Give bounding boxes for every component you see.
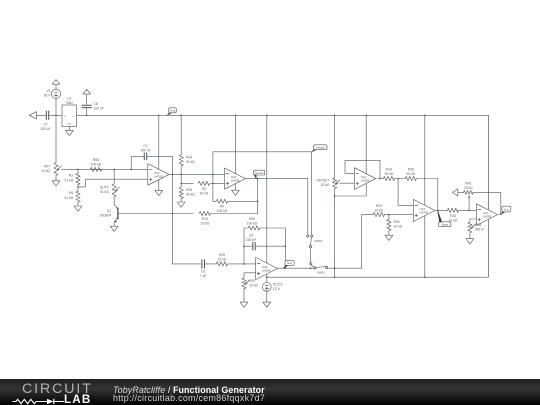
junction wiper-R2	[77, 169, 79, 171]
junction V1-rail	[55, 115, 57, 117]
svg-text:LM358: LM358	[361, 178, 370, 182]
ground below Q1	[110, 226, 118, 231]
wire OA7 plus network	[470, 219, 477, 222]
wire C7 to U1	[49, 114, 62, 116]
svg-text:R03: R03	[186, 188, 192, 192]
junction OA3out-feedback	[437, 210, 439, 212]
wire SW01 common down	[310, 248, 312, 263]
wire OA6 plus network	[244, 273, 256, 278]
svg-text:LM358: LM358	[483, 215, 492, 219]
resistor R33 10k	[447, 208, 458, 222]
wire plus input OA4	[181, 182, 224, 184]
wire R05 to OA3 output (feedback)	[416, 179, 437, 211]
junction rail x235	[235, 115, 237, 117]
potentiometer R20 10k	[242, 278, 259, 289]
transistor Q1 2N3904	[100, 208, 118, 223]
resistor R08 100k	[90, 158, 101, 172]
svg-text:51 kΩ: 51 kΩ	[64, 196, 73, 200]
resistor R29 10k	[373, 204, 384, 217]
junction wiper-C1 branch	[130, 169, 132, 171]
svg-text:LM358: LM358	[231, 179, 240, 183]
flag Sine	[283, 261, 294, 269]
capacitor C1 feedback loop	[131, 144, 172, 175]
svg-text:90 kΩ: 90 kΩ	[186, 192, 195, 196]
resistor R6 51k	[64, 191, 80, 202]
junction rail x425	[424, 115, 426, 117]
svg-text:OFFSET: OFFSET	[316, 178, 329, 182]
OA3 bottom supply pin	[424, 216, 426, 277]
svg-text:10 kΩ: 10 kΩ	[394, 225, 403, 229]
svg-text:Amp: Amp	[504, 208, 510, 212]
feedback R06 C4 network	[243, 217, 286, 268]
junction OA2out-R04	[180, 174, 182, 176]
wire top rail segment from input port to C7	[37, 114, 47, 116]
wire triangle node	[213, 151, 312, 153]
svg-text:V-: V-	[73, 116, 75, 118]
svg-text:10 kΩ: 10 kΩ	[41, 169, 50, 173]
resistor R05 90k	[405, 168, 416, 181]
junction negrail-offset	[334, 276, 336, 278]
svg-text:10 kΩ: 10 kΩ	[374, 208, 383, 212]
wire V1 down through rail to R07	[55, 98, 57, 162]
wire Q1 emitter to ground	[113, 222, 115, 226]
junction C8-rail	[86, 115, 88, 117]
potentiometer OFFSET 10k	[316, 115, 339, 188]
op-amp OA6	[256, 257, 278, 279]
potentiometer R4B 500	[468, 222, 485, 233]
svg-text:R07: R07	[44, 164, 50, 168]
wire C6 to R25	[205, 263, 217, 265]
svg-text:100 kΩ: 100 kΩ	[217, 209, 228, 213]
wire OA4 output square	[245, 178, 307, 180]
svg-text:Square: Square	[255, 171, 264, 175]
svg-text:7662: 7662	[66, 101, 74, 105]
svg-text:V1: V1	[46, 89, 50, 93]
wire R18 to square corner	[211, 213, 258, 215]
svg-text:R30: R30	[394, 220, 400, 224]
svg-text:51 kΩ: 51 kΩ	[100, 190, 109, 194]
wire R08 junction down to DUTY	[113, 169, 115, 183]
wire DUTY to Q1 collector	[114, 197, 118, 210]
svg-text:R18: R18	[202, 217, 208, 221]
wire OFFSET down to negative rail	[334, 189, 336, 278]
op-amp OA3	[413, 199, 435, 221]
ground below R03	[177, 199, 185, 208]
svg-text:330 nF: 330 nF	[40, 127, 50, 131]
wire x213 vertical	[212, 152, 214, 202]
OA7 top supply pin	[487, 115, 489, 209]
resistor R2 51k	[64, 169, 80, 184]
svg-text:100 nF: 100 nF	[94, 107, 104, 111]
svg-text:DUTY: DUTY	[100, 186, 110, 190]
junction base wire x172	[172, 213, 174, 215]
svg-text:20 kΩ: 20 kΩ	[464, 186, 473, 190]
op-amp OA4	[225, 168, 246, 189]
wire R07 wiper to OA2 minus	[61, 168, 147, 170]
wire R29 to OA3 plus	[384, 214, 413, 216]
svg-text:Q1: Q1	[107, 209, 112, 213]
svg-text:SW01: SW01	[314, 239, 323, 243]
svg-text:R0: R0	[220, 205, 224, 209]
flag Signal	[438, 211, 451, 227]
junction square-R0vert	[257, 178, 259, 180]
OA6 bottom supply pin to VCC3	[266, 274, 268, 282]
svg-text:C8: C8	[94, 102, 98, 106]
svg-text:R04: R04	[186, 155, 192, 159]
resistor R0 100k	[213, 199, 258, 213]
footer bar	[0, 379, 540, 405]
op-amp OA7	[476, 204, 497, 226]
wire OA2 output	[170, 173, 225, 175]
svg-text:2N3904: 2N3904	[100, 214, 112, 218]
potentiometer DUTY 51k	[100, 184, 120, 197]
OA1 feedback loop	[345, 160, 380, 178]
svg-text:200 nF: 200 nF	[246, 238, 256, 242]
junction rail x181	[180, 115, 182, 117]
resistor R03 90k	[179, 187, 195, 198]
svg-text:R05: R05	[408, 168, 414, 172]
wire square down to SW01	[307, 179, 309, 235]
svg-text:LM358: LM358	[154, 174, 163, 178]
junction OA1out-feedback	[379, 178, 381, 180]
wire C6 input	[172, 263, 200, 265]
svg-text:R4B: R4B	[475, 223, 482, 227]
wire OA2 output down to base wire and C6	[171, 174, 173, 264]
junction rail x335	[334, 115, 336, 117]
power arrow above V1	[52, 80, 60, 90]
flag Amp	[501, 206, 511, 214]
junction OA2out-x213	[212, 174, 214, 176]
svg-text:22 kΩ: 22 kΩ	[218, 257, 227, 261]
svg-text:90 kΩ: 90 kΩ	[200, 192, 209, 196]
junction R2-R6	[77, 185, 79, 192]
ground below R20	[240, 289, 248, 308]
svg-text:Triangle: Triangle	[316, 146, 326, 150]
capacitor C6 7uF	[200, 260, 207, 278]
svg-text:R06: R06	[249, 217, 255, 221]
IC U1 7662 box	[62, 97, 77, 127]
svg-text:R2: R2	[69, 174, 73, 178]
ground below R6	[74, 202, 82, 211]
svg-text:R2: R2	[202, 187, 206, 191]
svg-text:R29: R29	[376, 204, 382, 208]
wire OA7 output	[499, 214, 501, 216]
potentiometer RA2 20k	[464, 181, 474, 210]
OA4 ground pin	[232, 184, 240, 195]
svg-text:C1: C1	[143, 144, 147, 148]
wire C8 to rail	[86, 109, 88, 116]
junction R0-square vertical	[257, 201, 259, 203]
ground below R07	[52, 176, 60, 186]
wire R04 to R03	[180, 166, 182, 187]
junction R29-R30	[388, 214, 390, 216]
flag Triangle	[312, 145, 327, 152]
svg-text:Freq: Freq	[170, 109, 176, 113]
svg-text:100 kΩ: 100 kΩ	[247, 221, 258, 225]
junction plus-x213	[212, 183, 214, 185]
junction negative rail start	[266, 276, 268, 278]
junction wiper-duty	[113, 169, 115, 171]
wire square feedback vertical	[257, 179, 259, 214]
ground below R30	[385, 231, 393, 241]
svg-text:30 V: 30 V	[44, 94, 52, 98]
junction rail x366	[365, 115, 367, 117]
wire OFFSET wiper to OA1 plus	[340, 182, 355, 184]
junction R16-R05-minus	[397, 178, 399, 180]
op-amp OA2	[148, 164, 169, 186]
svg-text:U1: U1	[67, 97, 71, 101]
switch SW02	[310, 263, 328, 275]
OA3 top supply pin	[424, 115, 426, 205]
wire rail corner down to OA7 supply	[487, 115, 489, 209]
flag Freq	[167, 108, 176, 116]
wire R16 to R05	[395, 178, 406, 180]
resistor R04 90k	[179, 115, 195, 166]
resistor R2b 90k	[198, 181, 209, 195]
OA4 top supply pin	[234, 115, 236, 173]
wire Q1 base east	[118, 213, 193, 215]
OA1 top supply pin	[365, 115, 367, 173]
wire R33 to OA7 minus	[459, 209, 477, 211]
OA2 ground pin	[155, 180, 163, 196]
junction R04R03-pluswire	[180, 183, 182, 185]
svg-text:R20: R20	[249, 279, 255, 283]
OA6 top supply pin	[266, 115, 268, 262]
junction negrail-OA3pin	[424, 276, 426, 278]
capacitor C7 (series in rail)	[40, 111, 50, 131]
svg-text:RA2: RA2	[465, 181, 472, 185]
OA7 bottom supply pin	[487, 220, 489, 277]
wire U1 to rail east	[77, 114, 489, 116]
svg-text:SW02: SW02	[317, 271, 326, 275]
svg-text:10 kΩ: 10 kΩ	[449, 218, 458, 222]
svg-text:12 V: 12 V	[273, 287, 281, 291]
wire signal riser	[362, 215, 374, 269]
voltage source V1 30 V	[44, 89, 61, 98]
capacitor C8	[82, 102, 104, 111]
junction minus-feedback	[243, 263, 245, 265]
svg-text:C6: C6	[201, 269, 205, 273]
resistor R18 10k	[199, 211, 210, 225]
potentiometer R07 10k	[41, 162, 61, 175]
svg-text:90 kΩ: 90 kΩ	[186, 160, 195, 164]
svg-text:LM358: LM358	[420, 210, 429, 214]
switch SW01	[307, 235, 323, 248]
junction output-feedback	[285, 267, 287, 269]
junction minus-RA2 wiper	[468, 210, 470, 212]
OA1 bottom supply pin wire	[335, 184, 367, 196]
ground below VCC3	[263, 291, 271, 307]
svg-text:7 µF: 7 µF	[200, 274, 207, 278]
wire divider tap to OA2 plus	[78, 179, 148, 187]
svg-text:VCC3: VCC3	[273, 282, 283, 286]
op-amp OA1	[354, 168, 375, 190]
junction output-SW01common	[310, 267, 312, 269]
svg-text:C4: C4	[249, 233, 253, 237]
resistor R16 90k	[383, 168, 394, 181]
svg-text:500 Ω: 500 Ω	[475, 228, 484, 232]
wire triangle down to SW01	[311, 152, 313, 235]
svg-text:R16: R16	[386, 168, 392, 172]
svg-text:Signal: Signal	[441, 224, 448, 227]
resistor R30 10k	[387, 215, 403, 231]
svg-text:90 kΩ: 90 kΩ	[385, 172, 394, 176]
ground below U1	[65, 127, 73, 136]
junction offset-OA1supply	[334, 195, 336, 197]
svg-text:LM358: LM358	[262, 268, 271, 272]
junction signal-offset chain	[334, 267, 336, 269]
svg-text:10 kΩ: 10 kΩ	[201, 221, 210, 225]
junction rail x159	[158, 115, 160, 117]
svg-text:90 kΩ: 90 kΩ	[406, 172, 415, 176]
wire OA1 output	[377, 178, 383, 180]
wire node to OA3 minus	[398, 179, 413, 206]
OA2 top supply pin	[158, 115, 160, 169]
svg-text:R25: R25	[219, 253, 225, 257]
wire R25 to OA6 minus	[228, 263, 256, 265]
junction rail x267	[266, 115, 268, 117]
svg-text:R08: R08	[93, 158, 99, 162]
port AMP (left arrow)	[453, 189, 464, 196]
wire negative supply rail	[267, 220, 489, 277]
flag Square	[253, 170, 264, 178]
wire OA3 output	[436, 209, 448, 211]
svg-text:GND: GND	[67, 124, 72, 126]
svg-text:R33: R33	[450, 214, 456, 218]
power arrow above C8	[83, 90, 91, 105]
svg-text:Sine: Sine	[287, 261, 293, 265]
resistor R25 22k	[216, 253, 227, 266]
junction OA2out-down	[172, 174, 174, 176]
svg-text:100 kΩ: 100 kΩ	[91, 162, 102, 166]
wire SW02 to riser	[328, 267, 362, 269]
svg-text:10 kΩ: 10 kΩ	[321, 183, 330, 187]
svg-text:C7: C7	[43, 123, 47, 127]
port IN (left arrow)	[29, 112, 36, 119]
ground below R4B	[466, 233, 474, 244]
wire RA2 to OA7 output loop	[473, 192, 501, 214]
wire OA6 output	[278, 267, 314, 269]
voltage source VCC3 12 V	[262, 282, 282, 291]
svg-text:10 kΩ: 10 kΩ	[249, 284, 258, 288]
svg-text:100 nF: 100 nF	[140, 148, 150, 152]
svg-text:R6: R6	[69, 191, 73, 195]
svg-text:51 kΩ: 51 kΩ	[64, 178, 73, 182]
